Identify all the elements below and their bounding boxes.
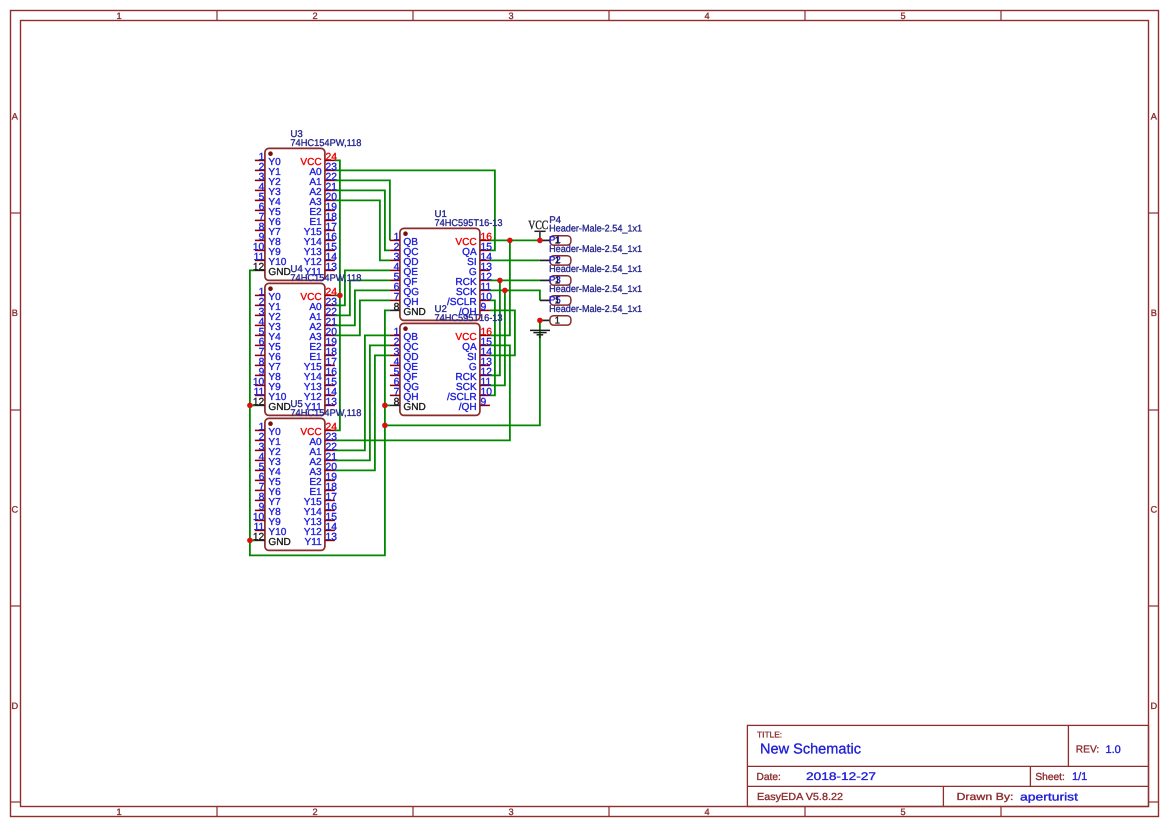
- svg-text:74HC595T16-13: 74HC595T16-13: [435, 313, 503, 324]
- svg-text:2018-12-27: 2018-12-27: [806, 771, 876, 783]
- svg-text:Header-Male-2.54_1x1: Header-Male-2.54_1x1: [549, 224, 642, 235]
- svg-text:GND: GND: [268, 537, 290, 548]
- svg-text:12: 12: [253, 262, 265, 273]
- svg-text:B: B: [1151, 308, 1157, 318]
- svg-text:4: 4: [704, 807, 709, 817]
- svg-text:74HC595T16-13: 74HC595T16-13: [435, 218, 503, 229]
- svg-text:9: 9: [481, 397, 487, 408]
- svg-text:74HC154PW,118: 74HC154PW,118: [290, 138, 361, 149]
- svg-text:Header-Male-2.54_1x1: Header-Male-2.54_1x1: [549, 264, 642, 275]
- svg-text:12: 12: [253, 397, 265, 408]
- svg-text:Sheet:: Sheet:: [1035, 772, 1064, 783]
- svg-text:1/1: 1/1: [1072, 771, 1087, 783]
- svg-text:REV:: REV:: [1076, 745, 1099, 756]
- svg-text:GND: GND: [268, 402, 290, 413]
- svg-text:4: 4: [704, 11, 709, 21]
- svg-text:1: 1: [116, 11, 121, 21]
- svg-text:13: 13: [326, 262, 338, 273]
- svg-text:3: 3: [508, 11, 513, 21]
- svg-text:TITLE:: TITLE:: [757, 730, 782, 740]
- svg-text:1: 1: [555, 316, 560, 327]
- svg-text:74HC154PW,118: 74HC154PW,118: [290, 408, 361, 419]
- svg-text:A: A: [12, 111, 19, 121]
- svg-text:5: 5: [900, 11, 905, 21]
- svg-text:13: 13: [326, 397, 338, 408]
- svg-text:Y11: Y11: [304, 537, 322, 548]
- svg-text:8: 8: [394, 302, 400, 313]
- svg-text:3: 3: [508, 807, 513, 817]
- svg-text:C: C: [1150, 504, 1157, 514]
- svg-text:74HC154PW,118: 74HC154PW,118: [290, 273, 361, 284]
- svg-text:D: D: [11, 701, 18, 711]
- svg-text:GND: GND: [403, 307, 425, 318]
- svg-text:C: C: [11, 504, 18, 514]
- svg-text:5: 5: [900, 807, 905, 817]
- svg-text:2: 2: [312, 807, 317, 817]
- svg-text:/QH: /QH: [459, 402, 477, 413]
- svg-text:B: B: [12, 308, 18, 318]
- svg-text:New Schematic: New Schematic: [760, 741, 861, 757]
- svg-text:Drawn By:: Drawn By:: [957, 792, 1014, 803]
- svg-text:VCC: VCC: [528, 218, 548, 232]
- svg-text:EasyEDA V5.8.22: EasyEDA V5.8.22: [757, 792, 843, 803]
- svg-text:Header-Male-2.54_1x1: Header-Male-2.54_1x1: [549, 304, 642, 315]
- svg-text:2: 2: [312, 11, 317, 21]
- svg-text:12: 12: [253, 532, 265, 543]
- svg-text:8: 8: [394, 397, 400, 408]
- svg-text:aperturist: aperturist: [1020, 791, 1078, 803]
- svg-text:GND: GND: [403, 402, 425, 413]
- svg-text:1.0: 1.0: [1106, 744, 1121, 756]
- svg-text:1: 1: [116, 807, 121, 817]
- svg-text:Header-Male-2.54_1x1: Header-Male-2.54_1x1: [549, 284, 642, 295]
- svg-text:Date:: Date:: [757, 772, 781, 783]
- svg-text:D: D: [1150, 701, 1157, 711]
- svg-text:Header-Male-2.54_1x1: Header-Male-2.54_1x1: [549, 244, 642, 255]
- svg-text:GND: GND: [268, 267, 290, 278]
- svg-text:13: 13: [326, 532, 338, 543]
- svg-text:A: A: [1151, 111, 1158, 121]
- svg-text:9: 9: [481, 302, 487, 313]
